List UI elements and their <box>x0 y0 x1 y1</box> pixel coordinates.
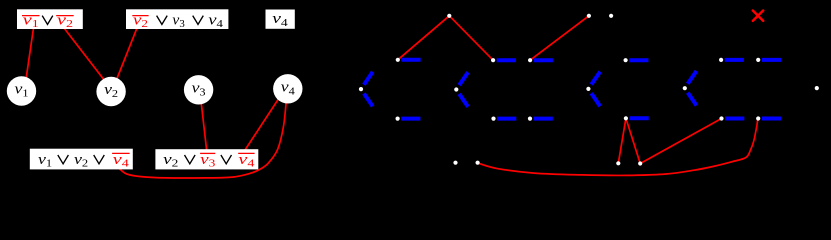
clause box C4: v1 | v2 | ~v4 <box>30 149 133 170</box>
matched edge (blue) at hex4 botL <box>725 117 744 121</box>
vertex hex4 botL <box>719 116 723 120</box>
vertex hex3 topL <box>624 58 628 62</box>
node v3 <box>184 75 213 104</box>
wire top node t1 to hex1 top <box>398 16 450 60</box>
vertex hex3 botL <box>624 116 628 120</box>
red X marker (unmatched vertex column) <box>753 11 763 21</box>
vertex hex4 left <box>683 86 687 90</box>
vertex hex4 botR <box>756 116 760 120</box>
matched edge (blue) at hex2 topL <box>497 58 516 62</box>
matched edge (blue) at hex4 topL <box>725 58 744 62</box>
vertex hex1 botL <box>396 117 400 121</box>
wire v3 to clause C5 <box>200 92 207 150</box>
clause box C3: v4 <box>266 10 295 29</box>
node v4 <box>273 74 302 103</box>
vertex bottom node b2 <box>476 161 480 165</box>
clause box C1: ~v1 | ~v2 <box>17 9 83 29</box>
matched edge (blue) at hex4 botR <box>762 117 781 121</box>
wire top node t1 to hex2 top-left <box>449 16 493 60</box>
matched edge (blue) at hex2 botL <box>497 117 516 121</box>
vertex bottom node b3 <box>616 161 620 165</box>
vertex right isolated <box>815 86 819 90</box>
matched edges (blue chevron) at hex3 left vertex <box>591 72 600 85</box>
vertex hex3 left <box>586 87 590 91</box>
vertex hex1 left <box>359 87 363 91</box>
vertex bottom node b4 <box>638 161 642 165</box>
wire v4 to clause C5 <box>245 92 283 150</box>
node v2 <box>96 77 125 106</box>
matched edge (blue) at hex1 bottom <box>401 117 420 121</box>
vertex top node t1 <box>447 14 451 18</box>
wire clause C1 to v1 <box>25 28 34 86</box>
vertex hex2 topL <box>491 58 495 62</box>
wire clause C2 to v2 <box>114 28 137 86</box>
vertex hex2 botR <box>528 117 532 121</box>
vertex hex1 topL <box>396 58 400 62</box>
matched edges (blue chevron) at hex1 left vertex <box>364 72 373 85</box>
wire clause C1 to v2 <box>64 28 108 85</box>
matched edge (blue) at hex4 topR <box>762 58 781 62</box>
clause box C5: v2 | ~v3 | ~v4 <box>155 149 258 169</box>
matched edge (blue) at hex2 botR <box>534 117 553 121</box>
wire hex3 bottom to node b3 <box>618 118 626 163</box>
matched edge (blue) at hex3 top <box>629 58 648 62</box>
matched edge (blue) at hex3 bottom <box>630 116 649 120</box>
clause box C2: ~v2 | v3 | v4 <box>126 9 228 29</box>
vertex hex2 topR <box>528 58 532 62</box>
vertex hex4 topR <box>756 58 760 62</box>
matched edge (blue) at hex2 topR <box>534 58 553 62</box>
matched edges (blue chevron) at hex4 left vertex <box>688 71 697 84</box>
vertex hex4 topL <box>719 58 723 62</box>
wire hex3 bottom to node b4 <box>626 118 640 163</box>
wire hex2 top-right to top node t2 <box>530 16 589 60</box>
vertex top node t3 <box>609 14 613 18</box>
wire v4 curve to clause C4 <box>119 93 287 178</box>
matched edges (blue chevron) at hex2 left vertex <box>459 72 468 85</box>
wire node b4 to hex4 bottom-left <box>640 119 721 164</box>
matched edge (blue) at hex1 top <box>401 58 420 62</box>
vertex bottom node b1 <box>453 161 457 165</box>
wire node b2 to hex4 bottom-right (long curve) <box>478 119 758 176</box>
vertex hex2 botL <box>491 117 495 121</box>
vertex hex2 left <box>454 87 458 91</box>
node v1 <box>7 76 36 105</box>
vertex top node t2 <box>587 14 591 18</box>
